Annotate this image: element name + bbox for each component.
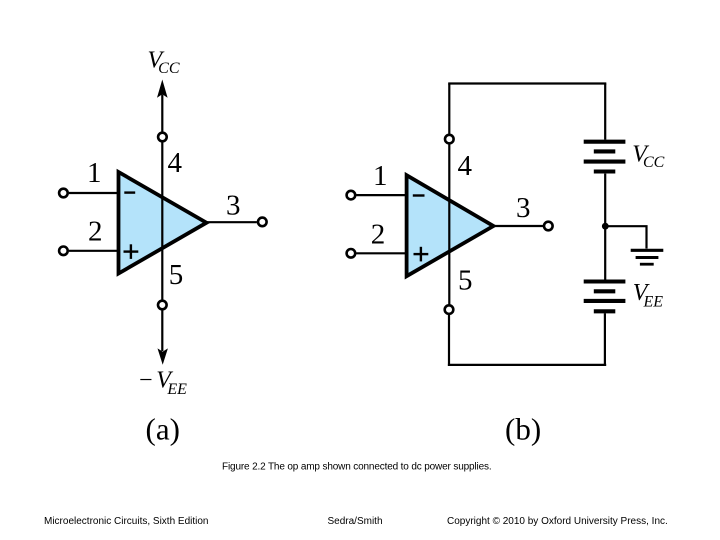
battery VCC plate 3 long (b) <box>584 160 626 164</box>
terminal circle pin 5 (b) <box>445 305 454 314</box>
wire pin5 lower lead (a) <box>161 310 163 351</box>
wire input 2 (b) <box>356 252 408 254</box>
wire input 2 (a) <box>69 250 120 252</box>
terminal circle pin 4 (a) <box>158 133 167 142</box>
wire pin4 lead through op-amp (b) <box>448 144 450 304</box>
svg-text:VCC: VCC <box>148 47 180 77</box>
plus sign non-inverting input (b) <box>414 247 429 262</box>
svg-text:Sedra/Smith: Sedra/Smith <box>328 516 383 527</box>
wire output 3 (b) <box>493 225 543 227</box>
wire left vertical lower (b) <box>448 315 450 366</box>
svg-text:VCC: VCC <box>632 141 664 171</box>
svg-text:3: 3 <box>516 192 531 224</box>
terminal circle input 2 (a) <box>59 247 68 256</box>
wire ground branch (b) <box>605 226 646 248</box>
svg-text:4: 4 <box>458 150 473 182</box>
battery VCC plate 2 short (b) <box>594 149 616 153</box>
wire right vertical lower (b) <box>604 313 606 366</box>
svg-text:5: 5 <box>458 265 473 297</box>
arrowhead down VEE (a) <box>158 348 168 364</box>
terminal circle input 1 (a) <box>59 189 68 198</box>
terminal circle input 1 (b) <box>347 191 356 200</box>
ground symbol (b) <box>631 250 664 264</box>
svg-text:2: 2 <box>88 216 103 248</box>
svg-text:1: 1 <box>87 157 102 189</box>
wire left vertical upper (b) <box>448 84 450 134</box>
svg-text:VEE: VEE <box>633 280 663 311</box>
svg-text:−VEE: −VEE <box>138 368 188 399</box>
terminal circle pin 5 (a) <box>158 301 167 310</box>
battery VEE plate 3 long (b) <box>584 299 626 303</box>
terminal circle input 2 (b) <box>347 249 356 258</box>
wire pin4 upper lead (a) <box>161 95 163 132</box>
wire top rail (b) <box>448 82 606 84</box>
battery VEE plate 1 long (b) <box>584 279 626 283</box>
battery VEE plate 2 short (b) <box>594 289 616 293</box>
junction dot node (b) <box>602 223 609 230</box>
minus sign inverting input (b) <box>413 194 425 196</box>
wire output 3 (a) <box>207 221 257 223</box>
terminal circle output 3 (b) <box>544 222 553 231</box>
svg-text:2: 2 <box>371 219 386 251</box>
minus sign inverting input (a) <box>124 191 135 193</box>
wire right vertical middle (b) <box>604 174 606 280</box>
svg-text:3: 3 <box>226 189 241 221</box>
wire input 1 (b) <box>356 194 408 196</box>
svg-text:5: 5 <box>169 259 184 291</box>
terminal circle output 3 (a) <box>258 218 267 227</box>
svg-text:Microelectronic Circuits, Sixt: Microelectronic Circuits, Sixth Edition <box>44 516 209 527</box>
op-amp triangle (a) <box>119 172 207 274</box>
battery VCC plate 4 short (b) <box>594 169 616 173</box>
wire right vertical upper (b) <box>604 84 606 140</box>
wire pin4 lower lead through op-amp (a) <box>161 142 163 300</box>
arrowhead up VCC (a) <box>157 80 168 98</box>
wire bottom rail (b) <box>448 364 606 366</box>
svg-text:1: 1 <box>373 160 388 192</box>
svg-text:Copyright © 2010 by Oxford Uni: Copyright © 2010 by Oxford University Pr… <box>447 516 668 527</box>
wire input 1 (a) <box>69 192 120 194</box>
terminal circle pin 4 (b) <box>445 135 454 144</box>
plus sign non-inverting input (a) <box>124 244 139 259</box>
svg-text:(b): (b) <box>505 412 541 447</box>
battery VEE plate 4 short (b) <box>594 309 616 313</box>
svg-text:Figure 2.2 The op amp shown co: Figure 2.2 The op amp shown connected to… <box>222 462 491 473</box>
svg-text:(a): (a) <box>146 412 180 447</box>
battery VCC plate 1 long (b) <box>584 140 626 144</box>
op-amp triangle (b) <box>407 175 494 276</box>
svg-text:4: 4 <box>168 147 183 179</box>
